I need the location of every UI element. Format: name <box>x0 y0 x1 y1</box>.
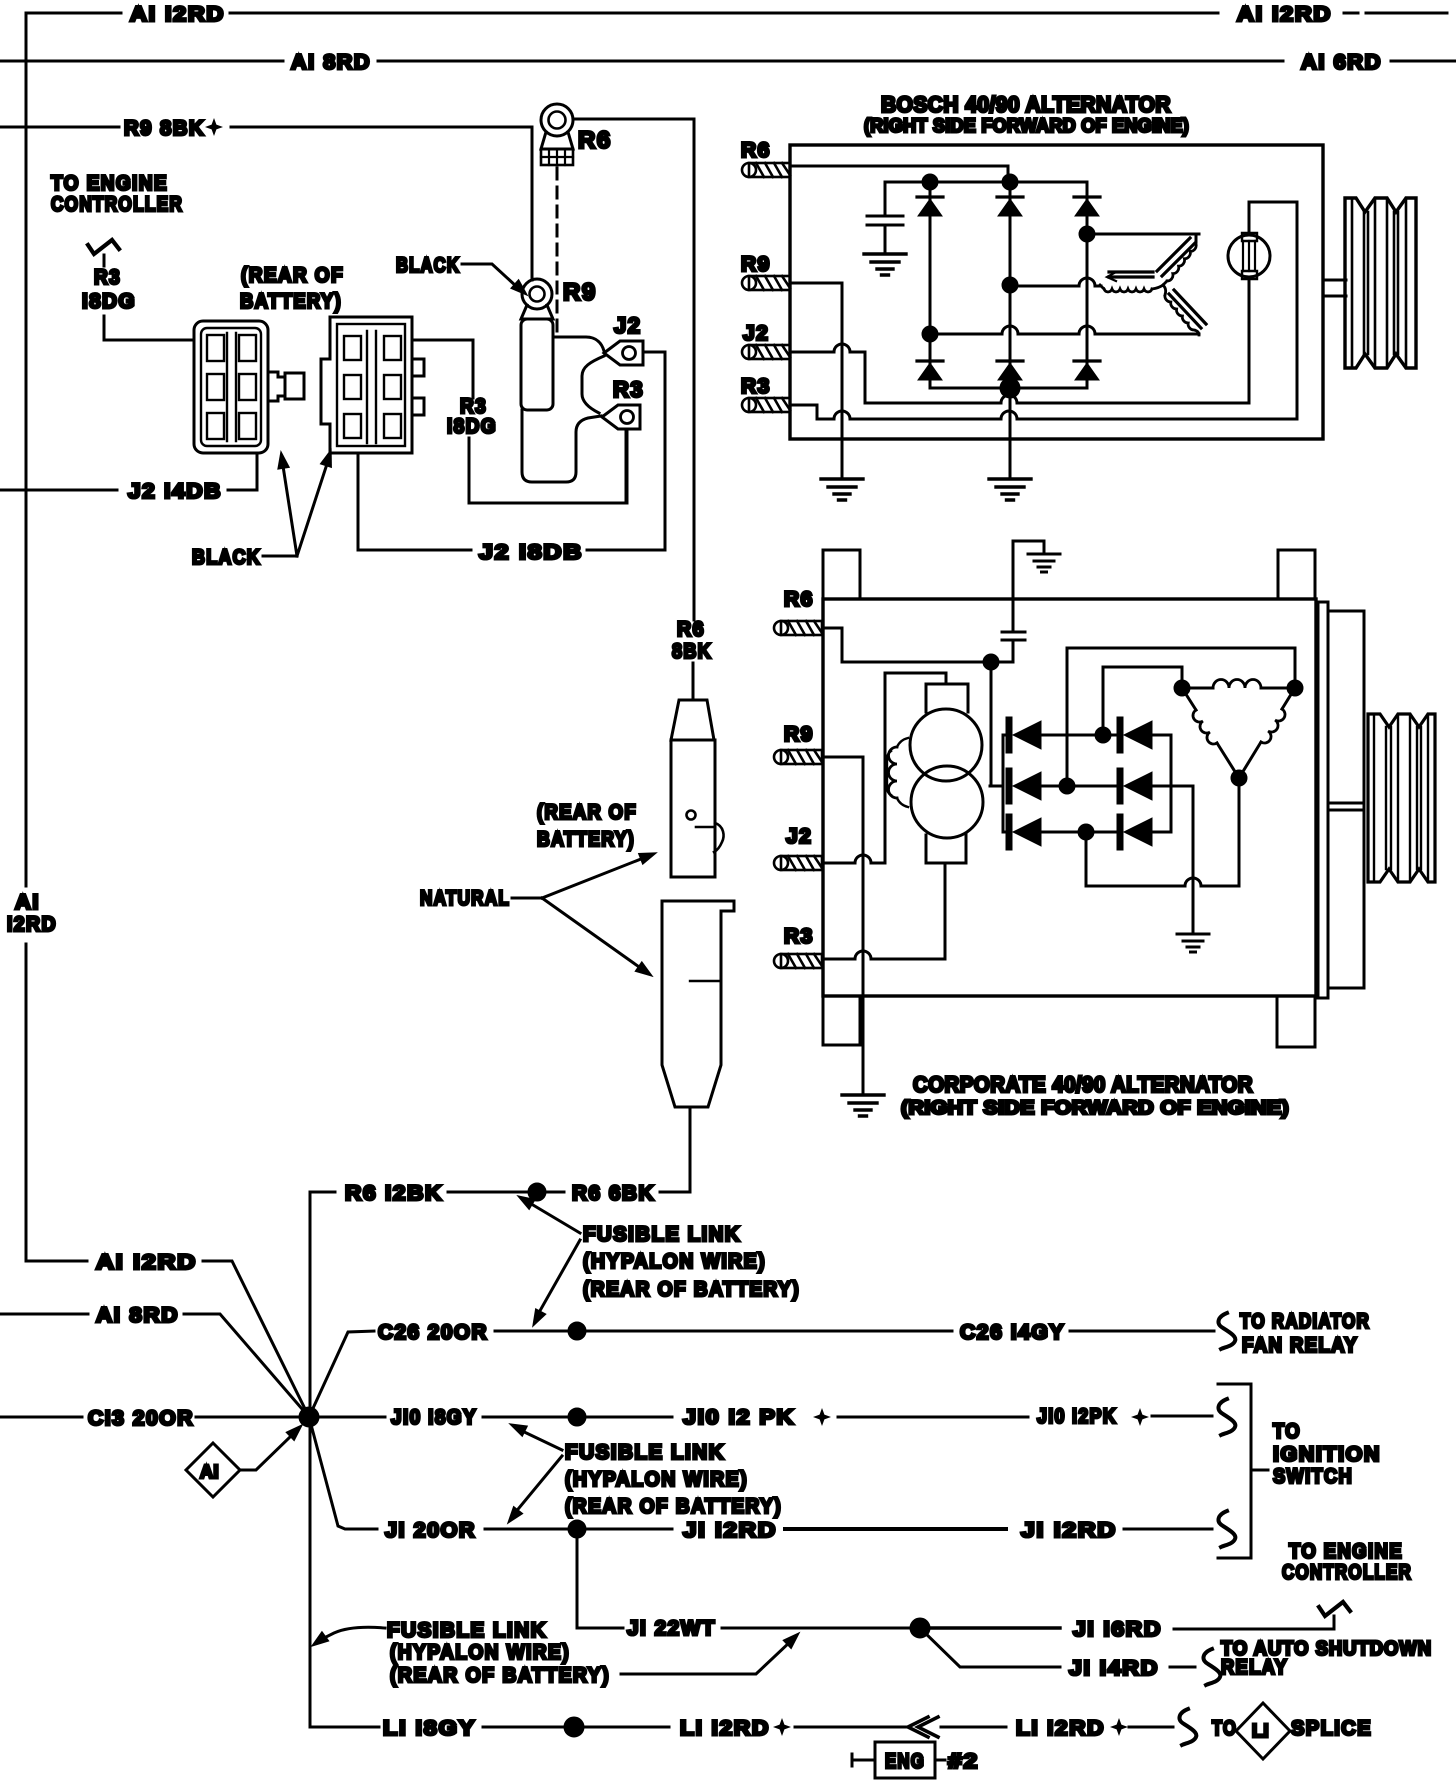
svg-text:AI 6RD: AI 6RD <box>1301 51 1382 74</box>
svg-text:FUSIBLE LINK: FUSIBLE LINK <box>565 1441 725 1464</box>
svg-text:R9: R9 <box>741 253 771 276</box>
svg-text:(REAR OF BATTERY): (REAR OF BATTERY) <box>583 1278 800 1301</box>
svg-text:I8DG: I8DG <box>447 415 497 438</box>
svg-text:BATTERY): BATTERY) <box>537 828 635 851</box>
svg-text:AI I2RD: AI I2RD <box>130 3 225 26</box>
svg-text:IGNITION: IGNITION <box>1273 1443 1381 1466</box>
svg-text:BATTERY): BATTERY) <box>240 290 342 313</box>
svg-text:(HYPALON WIRE): (HYPALON WIRE) <box>390 1641 570 1664</box>
svg-text:JI0 I2 PK: JI0 I2 PK <box>683 1406 795 1429</box>
svg-text:R6: R6 <box>677 618 705 641</box>
svg-text:JI 22WT: JI 22WT <box>627 1617 716 1640</box>
svg-text:J2: J2 <box>614 313 641 338</box>
svg-text:SWITCH: SWITCH <box>1273 1465 1353 1488</box>
svg-text:(HYPALON WIRE): (HYPALON WIRE) <box>583 1250 766 1273</box>
svg-text:LI I2RD: LI I2RD <box>1016 1717 1105 1740</box>
svg-text:R6: R6 <box>784 588 814 611</box>
svg-text:JI I2RD: JI I2RD <box>1021 1519 1117 1542</box>
svg-text:FAN RELAY: FAN RELAY <box>1242 1334 1358 1357</box>
svg-text:RELAY: RELAY <box>1221 1656 1288 1679</box>
svg-text:(RIGHT SIDE FORWARD OF ENGINE): (RIGHT SIDE FORWARD OF ENGINE) <box>901 1097 1289 1119</box>
svg-text:I8DG: I8DG <box>82 290 136 313</box>
svg-text:TO: TO <box>1273 1420 1301 1443</box>
svg-text:AI 8RD: AI 8RD <box>96 1304 179 1327</box>
svg-text:J2 I8DB: J2 I8DB <box>479 541 583 564</box>
svg-text:ENG: ENG <box>885 1750 925 1773</box>
svg-text:C26 I4GY: C26 I4GY <box>960 1321 1065 1344</box>
svg-text:(REAR OF: (REAR OF <box>241 264 344 287</box>
svg-text:NATURAL: NATURAL <box>420 887 510 910</box>
svg-text:CI3 20OR: CI3 20OR <box>88 1407 194 1430</box>
svg-text:AI: AI <box>15 891 40 914</box>
svg-text:TO: TO <box>1212 1717 1237 1740</box>
svg-text:C26 20OR: C26 20OR <box>378 1321 488 1344</box>
svg-text:R6 6BK: R6 6BK <box>572 1182 655 1205</box>
svg-text:JI0 I8GY: JI0 I8GY <box>391 1406 477 1429</box>
svg-text:FUSIBLE LINK: FUSIBLE LINK <box>583 1223 741 1246</box>
svg-text:R3: R3 <box>613 377 644 402</box>
svg-text:R9: R9 <box>784 723 814 746</box>
svg-text:AI I2RD: AI I2RD <box>96 1251 197 1274</box>
svg-text:J2: J2 <box>786 825 812 848</box>
svg-text:LI: LI <box>1252 1721 1269 1741</box>
svg-text:(REAR OF BATTERY): (REAR OF BATTERY) <box>565 1495 782 1518</box>
svg-text:CORPORATE 40/90 ALTERNATOR: CORPORATE 40/90 ALTERNATOR <box>913 1072 1253 1097</box>
svg-text:J2: J2 <box>743 322 769 345</box>
svg-text:R3: R3 <box>94 266 121 289</box>
svg-text:TO RADIATOR: TO RADIATOR <box>1240 1310 1370 1333</box>
svg-text:BLACK: BLACK <box>192 546 261 569</box>
svg-text:R9 8BK: R9 8BK <box>124 117 205 140</box>
svg-text:#2: #2 <box>948 1750 979 1773</box>
svg-text:I2RD: I2RD <box>7 913 57 936</box>
svg-text:(HYPALON WIRE): (HYPALON WIRE) <box>565 1468 748 1491</box>
svg-text:R3: R3 <box>741 375 771 398</box>
svg-text:AI: AI <box>200 1462 219 1482</box>
svg-text:FUSIBLE LINK: FUSIBLE LINK <box>387 1619 547 1642</box>
svg-text:8BK: 8BK <box>672 640 712 663</box>
svg-text:BOSCH 40/90 ALTERNATOR: BOSCH 40/90 ALTERNATOR <box>881 92 1171 117</box>
svg-text:J2 I4DB: J2 I4DB <box>128 480 222 503</box>
svg-text:LI I8GY: LI I8GY <box>383 1717 476 1740</box>
svg-text:LI I2RD: LI I2RD <box>680 1717 770 1740</box>
svg-text:TO ENGINE: TO ENGINE <box>51 172 168 195</box>
svg-text:(RIGHT SIDE FORWARD OF ENGINE): (RIGHT SIDE FORWARD OF ENGINE) <box>864 115 1189 137</box>
svg-text:BLACK: BLACK <box>396 254 460 277</box>
svg-text:SPLICE: SPLICE <box>1291 1717 1372 1740</box>
svg-text:JI I4RD: JI I4RD <box>1069 1657 1159 1680</box>
svg-text:AI I2RD: AI I2RD <box>1237 3 1332 26</box>
svg-text:AI 8RD: AI 8RD <box>291 51 371 74</box>
svg-text:JI I2RD: JI I2RD <box>683 1519 777 1542</box>
svg-text:R6: R6 <box>578 127 612 154</box>
svg-text:R9: R9 <box>563 279 597 306</box>
svg-text:R6 I2BK: R6 I2BK <box>345 1182 443 1205</box>
svg-text:(REAR OF BATTERY): (REAR OF BATTERY) <box>390 1664 610 1687</box>
svg-text:(REAR OF: (REAR OF <box>537 801 637 824</box>
svg-text:CONTROLLER: CONTROLLER <box>51 193 183 216</box>
svg-text:R3: R3 <box>784 925 814 948</box>
svg-text:JI 20OR: JI 20OR <box>385 1519 476 1542</box>
svg-text:JI0 I2PK: JI0 I2PK <box>1037 1405 1117 1428</box>
svg-text:R6: R6 <box>741 139 771 162</box>
svg-text:CONTROLLER: CONTROLLER <box>1282 1561 1412 1584</box>
svg-text:TO ENGINE: TO ENGINE <box>1289 1540 1403 1563</box>
svg-text:JI I6RD: JI I6RD <box>1073 1618 1162 1641</box>
